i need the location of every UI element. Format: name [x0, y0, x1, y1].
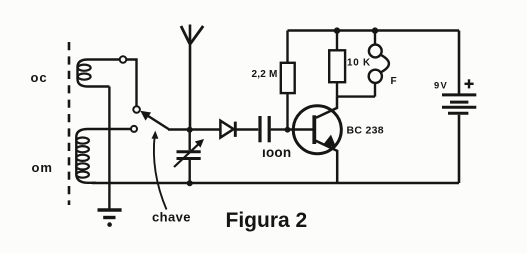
terminal circle (inline on oc wire): [120, 56, 127, 63]
svg-text:BC 238: BC 238: [347, 125, 384, 137]
diode D1: [220, 121, 258, 138]
coil L2 (om winding): [76, 129, 131, 183]
wire emitter to bottom rail: [336, 150, 339, 183]
node base junction: [285, 127, 291, 133]
variable capacitor CV: [174, 130, 204, 184]
switch wiper arm: [140, 111, 168, 129]
switch contact om: [131, 126, 137, 132]
svg-text:om: om: [32, 160, 53, 175]
svg-text:2,2 M: 2,2 M: [252, 69, 278, 80]
svg-text:F: F: [391, 76, 397, 87]
resistor R1 2.2M: [281, 31, 295, 130]
capacitor C1 100n: [260, 116, 285, 142]
wire base lead: [288, 128, 313, 130]
svg-text:10 K: 10 K: [347, 58, 371, 69]
antenna: [181, 25, 203, 130]
switch contact oc: [133, 106, 140, 113]
node rail/phone junction: [372, 27, 378, 33]
top rail wire: [288, 29, 460, 32]
svg-text:oc: oc: [31, 70, 48, 85]
bottom rail wire: [92, 182, 459, 185]
node rail/10K junction: [334, 27, 340, 33]
svg-text:ıoon: ıoon: [262, 145, 291, 160]
earphone F: [337, 31, 389, 97]
wire ground drop (oc coil bottom to ground): [108, 87, 110, 210]
node variable cap / bottom rail junction: [187, 180, 193, 186]
svg-text:Figura 2: Figura 2: [226, 209, 308, 232]
svg-text:chave: chave: [152, 210, 191, 225]
chave pointer arrow: [152, 131, 167, 210]
node antenna/signal junction: [187, 127, 193, 133]
battery plus sign: [465, 79, 474, 88]
coil L1 (oc winding): [78, 60, 120, 87]
signal wire (switch pivot to diode): [168, 128, 220, 130]
coil box dashed line: [68, 42, 71, 205]
ground symbol: [98, 210, 122, 227]
resistor R2 10K: [329, 31, 345, 97]
battery B1 9V: [442, 31, 476, 184]
wire collector: [316, 97, 337, 118]
svg-text:9V: 9V: [434, 80, 448, 91]
wire oc-coil top to terminal: [126, 60, 136, 107]
transistor Q1 BC238: [293, 106, 341, 154]
